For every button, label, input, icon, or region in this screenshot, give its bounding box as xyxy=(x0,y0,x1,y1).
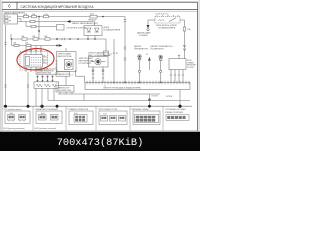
fuse F5 xyxy=(183,27,191,31)
label module right xyxy=(187,60,196,69)
svg-text:КУЗОВ: КУЗОВ xyxy=(152,96,159,98)
blower motor M1 xyxy=(65,60,74,70)
svg-text:ОТОПИТ.: ОТОПИТ. xyxy=(187,67,195,69)
svg-text:ТЕМПЕРАТУРЫ: ТЕМПЕРАТУРЫ xyxy=(134,47,148,50)
wire W1 xyxy=(18,16,126,18)
svg-text:И-01: И-01 xyxy=(10,113,14,115)
svg-text:КОНДИЦ.: КОНДИЦ. xyxy=(139,35,148,37)
junction dots y39 right xyxy=(77,38,96,40)
fuse F8 xyxy=(45,38,50,40)
svg-text:КОНДИЦИОНЕРА: КОНДИЦИОНЕРА xyxy=(159,27,176,30)
control panel switch SW1 xyxy=(34,76,59,89)
condenser fan label xyxy=(88,51,111,56)
fuse F9 xyxy=(14,44,19,46)
wire W13 loop xyxy=(58,94,84,101)
svg-text:ИСПАРИТЕЛЯ: ИСПАРИТЕЛЯ xyxy=(151,47,165,50)
transistor box Q1 xyxy=(56,86,74,93)
fuse F10 xyxy=(26,44,31,46)
svg-text:Т МОТОРНЫЙ ОТСЕК: Т МОТОРНЫЙ ОТСЕК xyxy=(98,108,119,111)
svg-text:ВЕНТИЛЯТОРА: ВЕНТИЛЯТОРА xyxy=(57,89,72,92)
pressure switch node xyxy=(147,20,155,31)
feeder to transistor xyxy=(65,76,67,85)
watermark bar xyxy=(0,132,200,151)
svg-text:85 86 30 87a 87: 85 86 30 87a 87 xyxy=(156,14,169,16)
svg-text:1.5: 1.5 xyxy=(70,74,73,76)
fuse F7 xyxy=(33,38,38,40)
label relay xyxy=(156,24,177,29)
fuse F1 xyxy=(24,13,29,18)
blower assembly box xyxy=(55,48,76,72)
wire W5 vertical x38 xyxy=(38,17,40,39)
label box resistor xyxy=(36,69,57,75)
wire W2 xyxy=(18,21,67,23)
label W11 xyxy=(152,96,173,99)
module box U1 xyxy=(169,55,186,83)
arrow node row2 xyxy=(56,44,62,47)
svg-text:УСЛОВНЫЕ ОБОЗНАЧ.: УСЛОВНЫЕ ОБОЗНАЧ. xyxy=(165,108,186,111)
svg-text:И-01 (детали разъемов): И-01 (детали разъемов) xyxy=(4,128,25,130)
transistor pins xyxy=(60,92,72,94)
junction dots y39 xyxy=(11,38,71,40)
border frame xyxy=(2,2,198,131)
right info block xyxy=(165,108,186,114)
svg-text:Р ПАНЕЛЬ ПРИБОРОВ: Р ПАНЕЛЬ ПРИБОРОВ xyxy=(68,108,89,111)
wire W2b xyxy=(18,19,22,22)
label blower right xyxy=(79,58,94,65)
sensor S4 xyxy=(159,55,163,82)
svg-text:ЗАМОК ЗАЖИГАНИЯ: ЗАМОК ЗАЖИГАНИЯ xyxy=(4,11,25,14)
connector table B xyxy=(36,111,62,124)
svg-text:ОТОПИТЕЛЯ: ОТОПИТЕЛЯ xyxy=(79,63,92,65)
bottom connector tables xyxy=(4,106,190,130)
fuse F3 xyxy=(90,13,97,18)
svg-text:Р-01: Р-01 xyxy=(74,113,78,115)
connector table D xyxy=(99,111,127,125)
relay pin labels xyxy=(156,14,169,16)
long wire left x6 xyxy=(4,25,6,106)
svg-text:И-01 (днище кузова): И-01 (днище кузова) xyxy=(4,109,22,111)
label pressure switch xyxy=(137,31,152,36)
label right of B1 xyxy=(66,27,87,30)
svg-text:700x473(87KiB): 700x473(87KiB) xyxy=(57,137,144,149)
wire W12 xyxy=(48,90,190,107)
wire W10 vertical x114 xyxy=(113,39,118,83)
table dividers xyxy=(33,106,163,130)
svg-text:L: L xyxy=(44,58,45,60)
ignition switch S1 xyxy=(4,14,18,24)
wire W11 xyxy=(84,94,160,106)
wire W4 + fuse F4 xyxy=(26,22,57,28)
fuse F2b xyxy=(30,20,35,22)
fuse F6 xyxy=(22,38,27,40)
connector box on drop xyxy=(104,51,113,56)
connector table E xyxy=(133,111,160,125)
svg-text:85: 85 xyxy=(116,53,118,55)
annotation red ellipse xyxy=(16,47,55,71)
bus junction dots xyxy=(4,105,182,108)
connector table A xyxy=(5,111,30,124)
svg-text:Т-3: Т-3 xyxy=(146,54,149,56)
L wire to strip xyxy=(75,70,84,83)
svg-text:Т-04: Т-04 xyxy=(103,114,107,116)
wire W8 xyxy=(183,31,186,59)
blower resistor block R1 xyxy=(20,46,48,73)
arrow node IG2 xyxy=(67,20,99,25)
title bar xyxy=(2,2,197,11)
ground bus strip xyxy=(85,81,190,90)
svg-text:КУЗОВ: КУЗОВ xyxy=(166,96,173,98)
wire W9 xyxy=(12,39,58,46)
svg-text:СХЕМА РАСПОЛОЖЕНИЯ: СХЕМА РАСПОЛОЖЕНИЯ xyxy=(35,108,59,111)
svg-text:7.5A: 7.5A xyxy=(44,13,49,16)
svg-text:И-02 (вспомог. разъемы): И-02 (вспомог. разъемы) xyxy=(35,128,57,130)
page background xyxy=(0,0,200,151)
wire W7 relay to fuse xyxy=(180,20,185,27)
label ground strip xyxy=(103,87,141,90)
sensor labels mid-right xyxy=(134,45,148,50)
svg-text:ТРАНЗИСТОР: ТРАНЗИСТОР xyxy=(57,73,70,76)
connector table C xyxy=(69,111,93,125)
diode pack D1 xyxy=(84,26,102,40)
svg-text:ПРЕДОХР: ПРЕДОХР xyxy=(88,20,97,22)
svg-text:КОНДИЦИОНЕРА: КОНДИЦИОНЕРА xyxy=(104,29,121,32)
strip junction dots xyxy=(113,82,161,83)
feeders to bottom bus xyxy=(36,89,54,107)
svg-text:РАЗЪЕМЫ СХЕМЫ: РАЗЪЕМЫ СХЕМЫ xyxy=(132,108,149,111)
label box below blower xyxy=(56,72,73,77)
fuse F3b xyxy=(44,13,49,18)
fuse F2 xyxy=(32,13,37,18)
MAIN SCHEMATIC xyxy=(3,11,196,107)
label ignition xyxy=(4,11,25,14)
svg-text:ВЕНТИЛЯТОРА: ВЕНТИЛЯТОРА xyxy=(37,72,52,75)
label under F3 xyxy=(88,20,97,22)
connector box B1 xyxy=(57,25,65,31)
bus row y39 xyxy=(11,34,106,51)
right small connector row xyxy=(166,115,189,121)
svg-text:ЭЛЕКТРОПРОВОДКА КОНДИЦИОНЕРА: ЭЛЕКТРОПРОВОДКА КОНДИЦИОНЕРА xyxy=(103,87,141,90)
wire W3 xyxy=(71,22,95,26)
relay K1 xyxy=(155,15,180,23)
sensor S3 xyxy=(138,55,142,83)
caption strip 1 xyxy=(4,108,149,111)
junction dots W1 xyxy=(38,16,104,18)
main bottom bus xyxy=(3,105,192,107)
svg-text:СХЕМЫ ПРОВОДКИ: СХЕМЫ ПРОВОДКИ xyxy=(165,112,184,114)
splice arrow node xyxy=(146,54,151,70)
svg-text:ВЕНТИЛЯТОРА: ВЕНТИЛЯТОРА xyxy=(58,55,73,58)
label diode pack xyxy=(104,27,121,31)
svg-text:И-02: И-02 xyxy=(41,113,45,115)
wire W6 vertical x125 xyxy=(124,17,126,83)
caption strip 2 xyxy=(4,128,57,130)
tick marks row1 xyxy=(62,38,65,40)
condenser fan M2 xyxy=(89,57,109,83)
long wire x28 xyxy=(27,72,29,106)
fuse row labels xyxy=(13,35,48,45)
svg-text:СИСТЕМА КОНДИЦИОНИРОВАНИЯ ВОЗД: СИСТЕМА КОНДИЦИОНИРОВАНИЯ ВОЗДУХА xyxy=(21,5,95,9)
